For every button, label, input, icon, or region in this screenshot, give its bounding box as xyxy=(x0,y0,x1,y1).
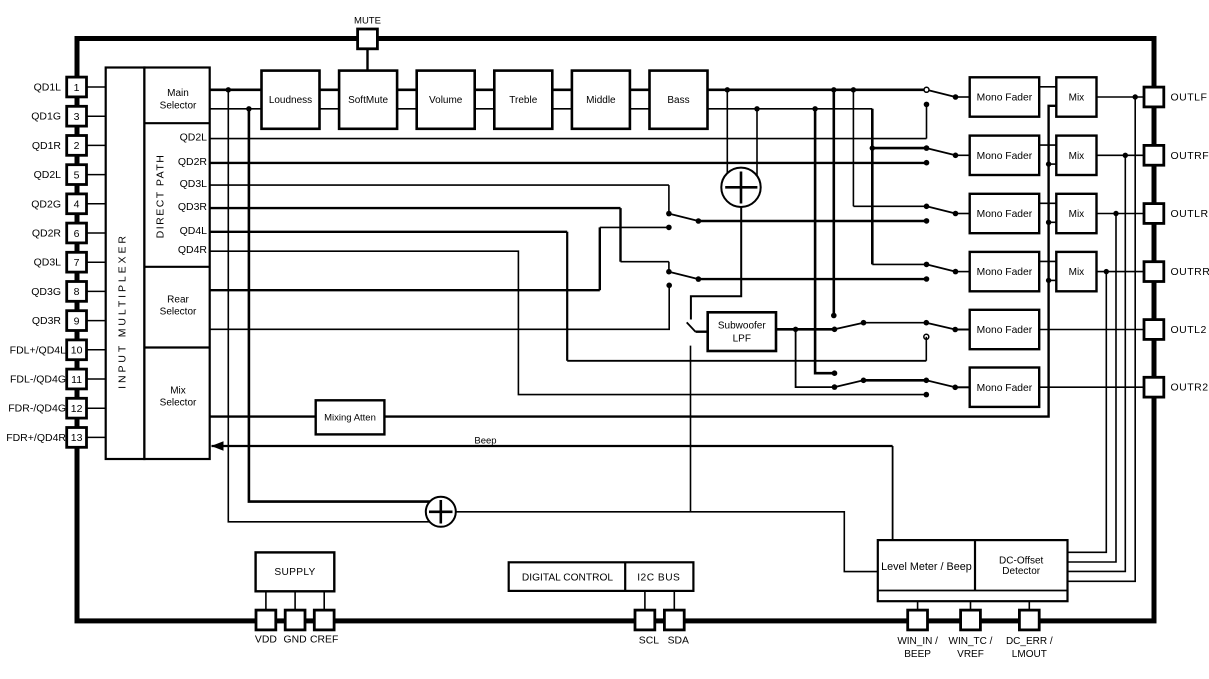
svg-text:13: 13 xyxy=(71,432,83,444)
svg-text:QD2L: QD2L xyxy=(34,169,62,181)
svg-text:DIGITAL CONTROL: DIGITAL CONTROL xyxy=(522,572,613,583)
svg-text:QD2L: QD2L xyxy=(180,132,208,144)
svg-text:LPF: LPF xyxy=(733,334,751,345)
svg-text:QD1R: QD1R xyxy=(32,140,62,152)
svg-text:Mix: Mix xyxy=(1069,267,1085,278)
svg-text:QD3R: QD3R xyxy=(178,201,208,213)
svg-text:QD1G: QD1G xyxy=(31,111,61,123)
svg-text:3: 3 xyxy=(74,111,80,123)
svg-text:DC_ERR /: DC_ERR / xyxy=(1006,636,1053,647)
svg-text:GND: GND xyxy=(284,634,307,645)
svg-text:VREF: VREF xyxy=(957,649,984,660)
svg-text:Beep: Beep xyxy=(474,436,496,447)
svg-text:SCL: SCL xyxy=(639,636,659,647)
svg-text:Volume: Volume xyxy=(429,95,463,106)
svg-text:CREF: CREF xyxy=(310,634,338,645)
svg-text:SoftMute: SoftMute xyxy=(348,95,388,106)
svg-text:FDL+/QD4L: FDL+/QD4L xyxy=(10,344,66,356)
svg-text:9: 9 xyxy=(74,315,80,327)
svg-text:QD3L: QD3L xyxy=(180,178,208,190)
svg-text:WIN_TC /: WIN_TC / xyxy=(949,636,993,647)
svg-text:Mix: Mix xyxy=(1069,151,1085,162)
svg-text:MUTE: MUTE xyxy=(354,16,381,27)
svg-text:Mix: Mix xyxy=(1069,93,1085,104)
svg-text:Rear: Rear xyxy=(167,294,189,305)
svg-text:1: 1 xyxy=(74,82,80,94)
svg-text:8: 8 xyxy=(74,286,80,298)
svg-text:QD2R: QD2R xyxy=(178,156,208,168)
svg-text:Middle: Middle xyxy=(586,95,616,106)
svg-text:FDL-/QD4G: FDL-/QD4G xyxy=(10,374,66,386)
svg-text:QD3L: QD3L xyxy=(34,257,62,269)
svg-text:OUTL2: OUTL2 xyxy=(1171,324,1207,336)
svg-text:Mono Fader: Mono Fader xyxy=(977,209,1033,220)
svg-text:QD4L: QD4L xyxy=(180,225,208,237)
svg-text:Mono Fader: Mono Fader xyxy=(977,151,1033,162)
svg-text:11: 11 xyxy=(71,374,82,386)
svg-text:LMOUT: LMOUT xyxy=(1012,649,1047,660)
svg-text:QD1L: QD1L xyxy=(34,82,62,94)
svg-text:Mono Fader: Mono Fader xyxy=(977,93,1033,104)
svg-text:Mixing Atten: Mixing Atten xyxy=(324,412,376,423)
svg-text:QD4R: QD4R xyxy=(178,244,208,256)
svg-text:Selector: Selector xyxy=(160,100,197,111)
svg-text:Mono Fader: Mono Fader xyxy=(977,325,1033,336)
svg-text:OUTLF: OUTLF xyxy=(1171,92,1208,104)
svg-text:Selector: Selector xyxy=(160,307,197,318)
svg-text:QD2R: QD2R xyxy=(32,228,62,240)
svg-text:BEEP: BEEP xyxy=(904,649,931,660)
svg-text:Treble: Treble xyxy=(509,95,537,106)
svg-text:6: 6 xyxy=(74,228,80,240)
svg-text:Mix: Mix xyxy=(1069,209,1085,220)
svg-text:FDR+/QD4R: FDR+/QD4R xyxy=(6,432,66,444)
svg-text:Level Meter / Beep: Level Meter / Beep xyxy=(881,561,972,573)
svg-text:VDD: VDD xyxy=(255,634,277,645)
svg-text:12: 12 xyxy=(71,403,83,415)
svg-text:Selector: Selector xyxy=(160,398,197,409)
svg-text:QD3R: QD3R xyxy=(32,315,62,327)
svg-text:OUTRR: OUTRR xyxy=(1171,266,1209,278)
svg-text:OUTRF: OUTRF xyxy=(1171,150,1209,162)
svg-text:QD3G: QD3G xyxy=(31,286,61,298)
svg-text:Mix: Mix xyxy=(170,386,186,397)
svg-text:SDA: SDA xyxy=(668,636,689,647)
svg-text:Bass: Bass xyxy=(667,95,689,106)
svg-text:FDR-/QD4G: FDR-/QD4G xyxy=(8,403,66,415)
svg-text:5: 5 xyxy=(74,169,80,181)
svg-text:Mono Fader: Mono Fader xyxy=(977,267,1033,278)
svg-text:INPUT MULTIPLEXER: INPUT MULTIPLEXER xyxy=(117,233,129,389)
svg-text:I2C BUS: I2C BUS xyxy=(637,572,680,583)
svg-text:Detector: Detector xyxy=(1002,566,1040,577)
svg-text:Loudness: Loudness xyxy=(269,95,312,106)
svg-text:Mono Fader: Mono Fader xyxy=(977,383,1033,394)
svg-text:OUTLR: OUTLR xyxy=(1171,208,1209,220)
svg-text:4: 4 xyxy=(74,199,80,211)
svg-text:SUPPLY: SUPPLY xyxy=(274,567,315,578)
svg-text:Main: Main xyxy=(167,88,189,99)
svg-text:OUTR2: OUTR2 xyxy=(1171,382,1209,394)
svg-text:2: 2 xyxy=(74,140,80,152)
svg-text:QD2G: QD2G xyxy=(31,198,61,210)
svg-text:Subwoofer: Subwoofer xyxy=(718,320,766,331)
svg-text:7: 7 xyxy=(74,257,80,269)
svg-text:DIRECT PATH: DIRECT PATH xyxy=(155,154,167,239)
svg-text:10: 10 xyxy=(71,345,83,357)
svg-text:WIN_IN /: WIN_IN / xyxy=(897,636,938,647)
